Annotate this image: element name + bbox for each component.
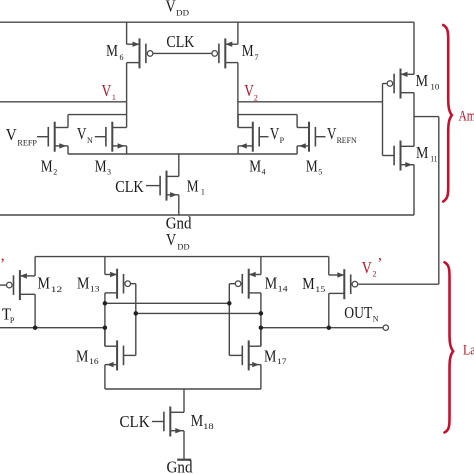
svg-text:CLK: CLK xyxy=(166,32,194,51)
svg-text:M: M xyxy=(249,156,261,175)
svg-text:Latch: Latch xyxy=(463,343,474,359)
svg-text:CLK: CLK xyxy=(115,177,144,196)
svg-text:OUT: OUT xyxy=(344,303,372,322)
svg-text:REFP: REFP xyxy=(17,138,37,147)
svg-text:15: 15 xyxy=(315,285,325,294)
svg-text:V: V xyxy=(102,81,112,100)
svg-text:1: 1 xyxy=(201,187,205,196)
svg-text:V: V xyxy=(166,0,176,15)
svg-text:M: M xyxy=(264,346,277,365)
svg-text:’: ’ xyxy=(377,256,382,273)
svg-text:V: V xyxy=(77,124,87,143)
svg-text:10: 10 xyxy=(430,82,439,91)
svg-text:N: N xyxy=(87,136,93,145)
svg-text:P: P xyxy=(280,136,285,145)
svg-text:2: 2 xyxy=(254,93,258,102)
svg-text:CLK: CLK xyxy=(120,412,150,431)
svg-text:13: 13 xyxy=(90,285,100,294)
svg-text:16: 16 xyxy=(89,357,99,366)
svg-text:18: 18 xyxy=(203,422,214,431)
svg-text:Gnd: Gnd xyxy=(167,458,194,474)
svg-text:P: P xyxy=(10,316,15,325)
svg-text:V: V xyxy=(270,124,279,143)
svg-text:’: ’ xyxy=(0,256,5,273)
svg-text:M: M xyxy=(302,274,315,293)
svg-text:V: V xyxy=(362,258,373,277)
svg-text:M: M xyxy=(95,156,107,175)
svg-text:DD: DD xyxy=(177,243,189,252)
svg-text:M: M xyxy=(191,411,204,430)
svg-text:V: V xyxy=(6,125,17,144)
svg-text:14: 14 xyxy=(278,285,288,294)
svg-text:1: 1 xyxy=(112,93,116,102)
svg-text:17: 17 xyxy=(277,357,287,366)
svg-text:N: N xyxy=(373,314,379,323)
svg-text:DD: DD xyxy=(176,9,189,18)
svg-text:5: 5 xyxy=(318,168,322,177)
svg-text:V: V xyxy=(327,124,336,143)
svg-text:M: M xyxy=(187,177,199,196)
svg-text:3: 3 xyxy=(107,168,111,177)
svg-text:12: 12 xyxy=(51,285,63,294)
svg-text:M: M xyxy=(76,346,89,365)
svg-text:M: M xyxy=(77,274,90,293)
svg-text:M: M xyxy=(38,274,51,293)
svg-text:4: 4 xyxy=(262,168,266,177)
svg-text:REFN: REFN xyxy=(337,136,357,145)
svg-text:6: 6 xyxy=(120,53,124,62)
svg-text:7: 7 xyxy=(255,53,259,62)
svg-text:V: V xyxy=(166,230,176,249)
svg-text:2: 2 xyxy=(373,270,377,279)
svg-text:11: 11 xyxy=(430,154,437,163)
svg-text:2: 2 xyxy=(53,168,57,177)
svg-text:M: M xyxy=(41,156,53,175)
svg-text:M: M xyxy=(242,41,254,60)
svg-text:Amp: Amp xyxy=(459,109,474,125)
svg-text:M: M xyxy=(416,71,429,90)
svg-text:M: M xyxy=(106,41,118,60)
svg-text:M: M xyxy=(416,143,429,162)
svg-text:M: M xyxy=(306,156,318,175)
svg-text:M: M xyxy=(265,273,278,292)
